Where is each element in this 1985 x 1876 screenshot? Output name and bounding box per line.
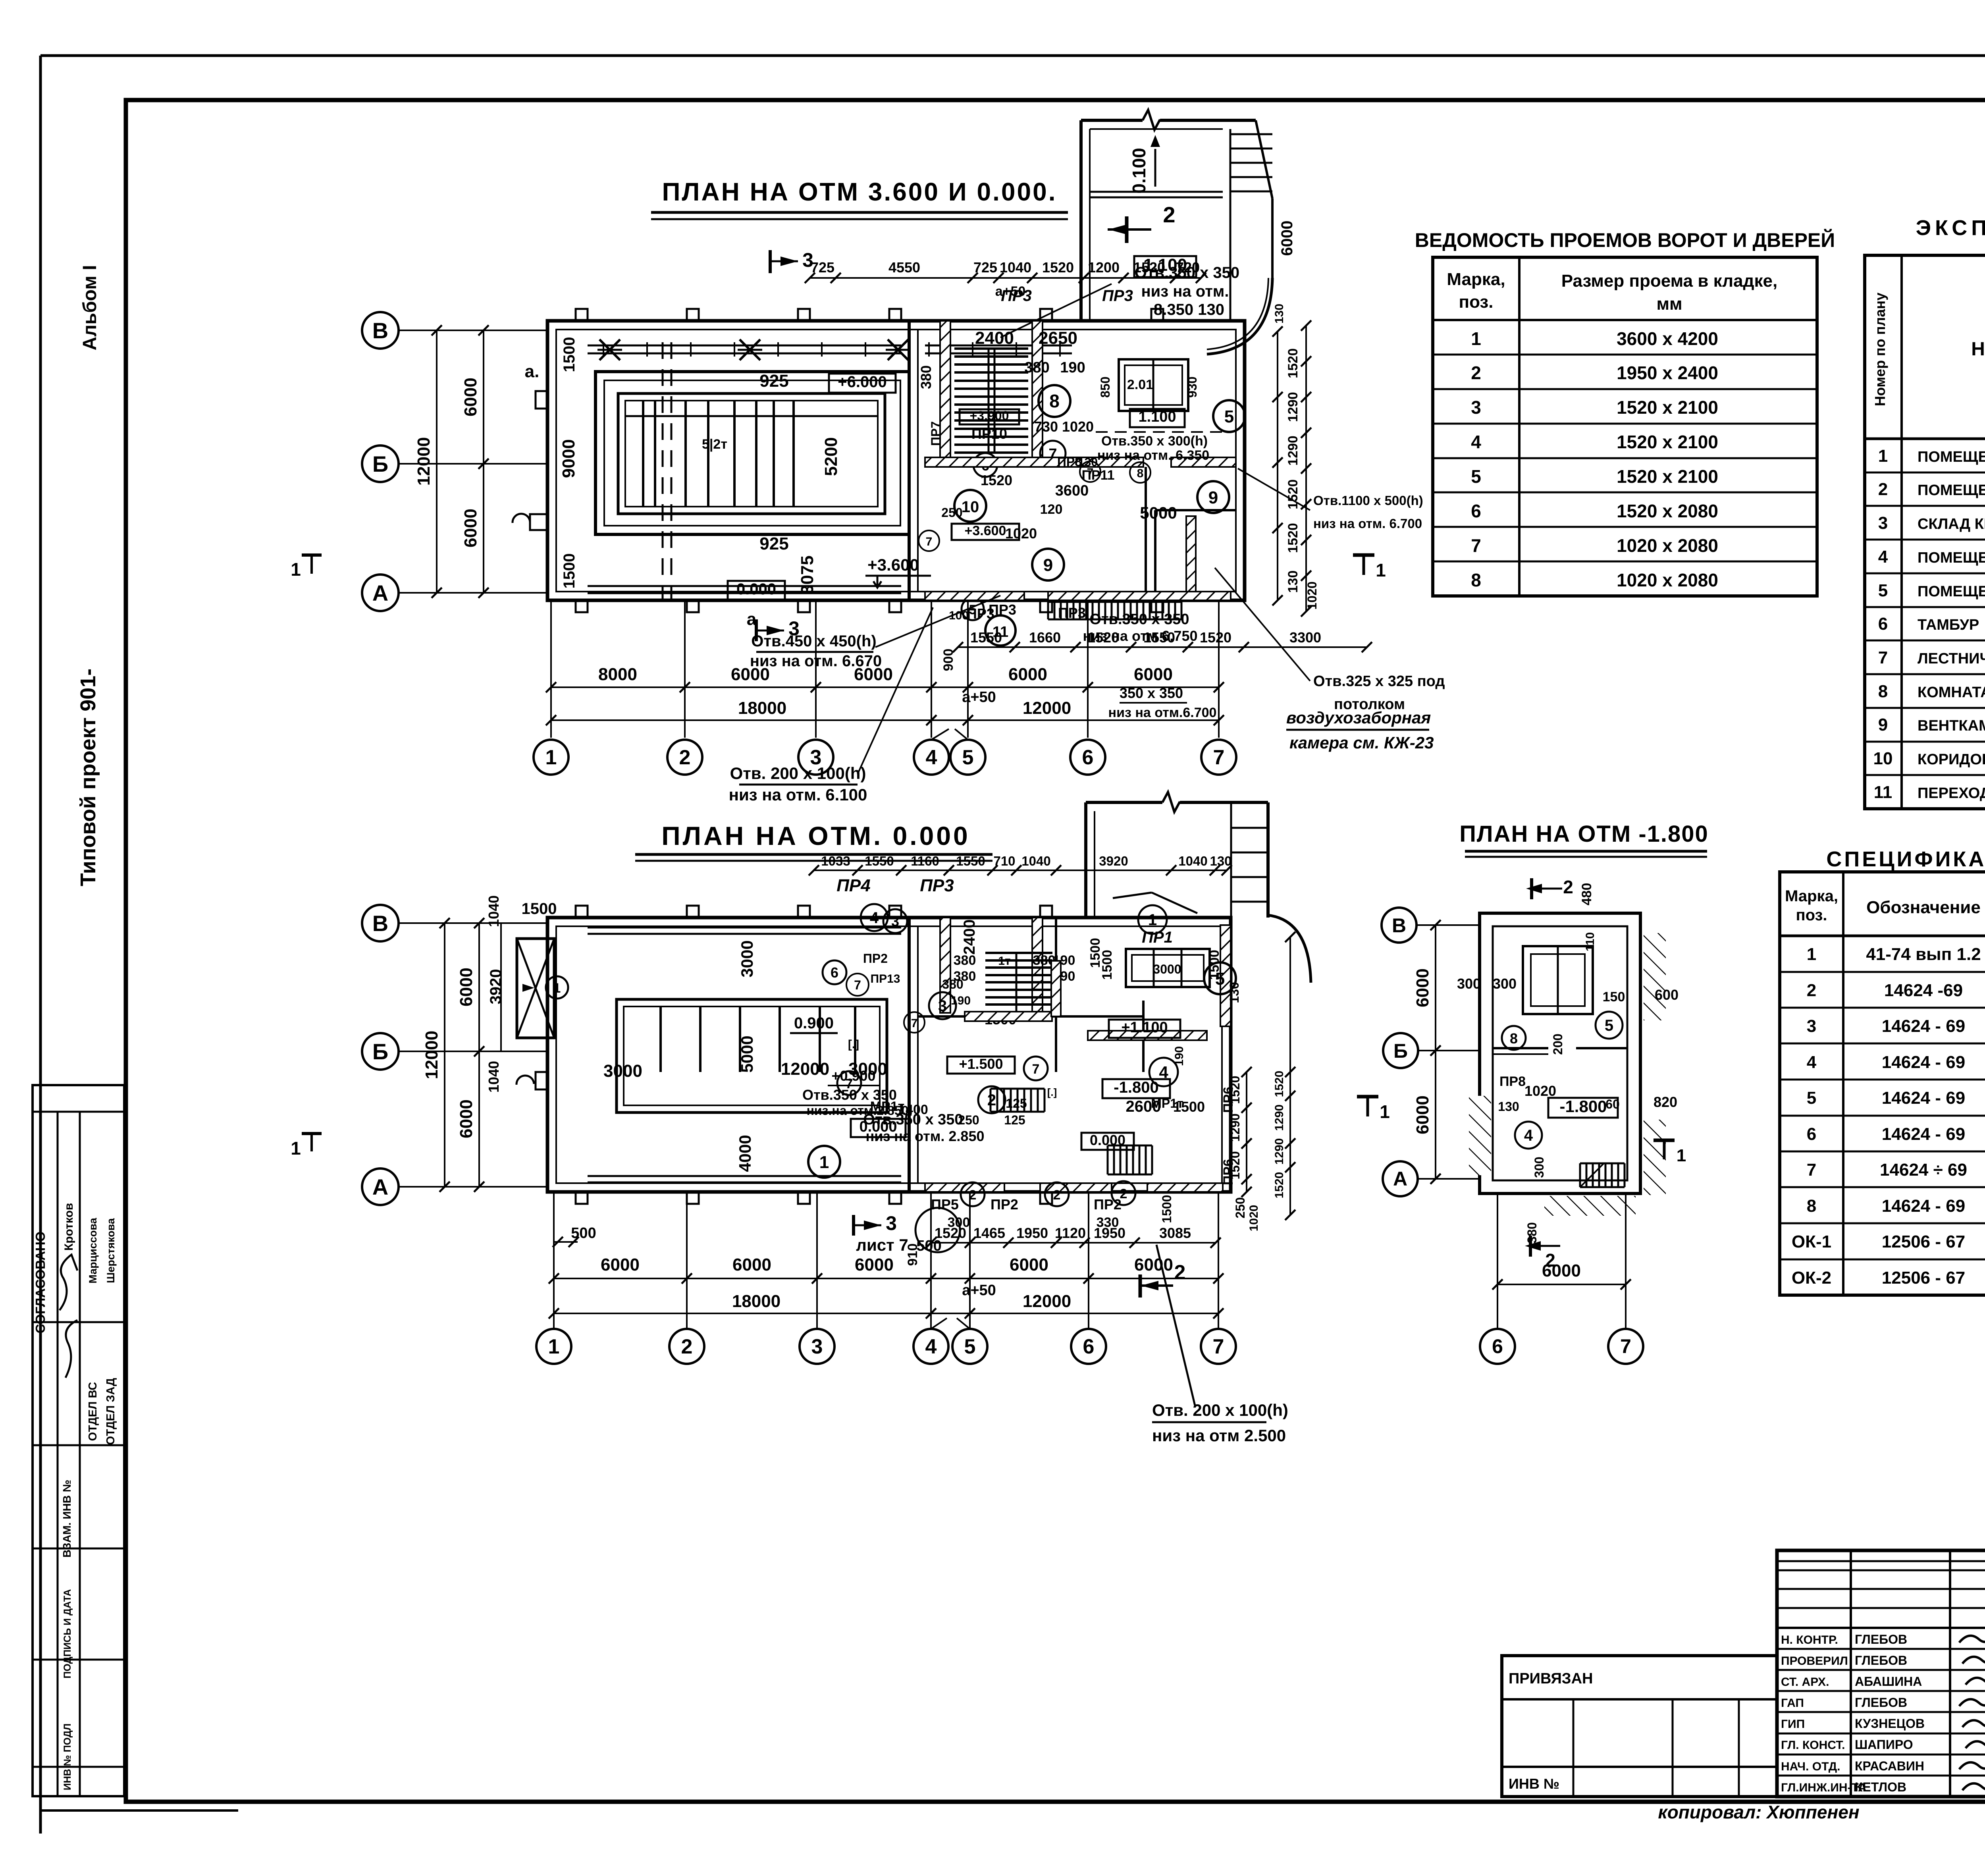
svg-text:60: 60 <box>1605 1097 1620 1111</box>
plan2 stair flight <box>985 952 1052 954</box>
svg-text:4: 4 <box>1471 432 1481 452</box>
plan1 middle hatched wall <box>925 457 1143 467</box>
svg-text:ПОМЕЩЕНИЕ ИЗВЕСТКОВОГО ТЕСТ: ПОМЕЩЕНИЕ ИЗВЕСТКОВОГО ТЕСТА <box>1918 583 1985 600</box>
plan2 gate <box>517 939 554 1038</box>
svg-text:6: 6 <box>1807 1124 1816 1144</box>
svg-text:1: 1 <box>291 559 301 580</box>
svg-text:ЛЕСТНИЧНАЯ КЛЕТКА: ЛЕСТНИЧНАЯ КЛЕТКА <box>1918 650 1985 667</box>
svg-text:1: 1 <box>1471 328 1481 349</box>
svg-text:190: 190 <box>1173 1046 1186 1066</box>
plan2 window bands <box>588 927 901 929</box>
svg-text:Н а и м е н о в а н и е: Н а и м е н о в а н и е <box>1971 339 1985 360</box>
svg-text:Шерстякова: Шерстякова <box>105 1218 117 1283</box>
svg-text:710: 710 <box>993 854 1015 868</box>
svg-text:7: 7 <box>1620 1335 1631 1357</box>
plan2 left vertical dims <box>478 923 480 1187</box>
svg-text:3075: 3075 <box>798 555 817 594</box>
plan1 section mark T1 <box>1353 553 1374 557</box>
plan1 axis circle B <box>362 445 399 482</box>
svg-text:1290: 1290 <box>1273 1105 1286 1131</box>
svg-text:ПР7: ПР7 <box>929 421 943 446</box>
svg-text:4: 4 <box>1878 547 1888 567</box>
plan1 interior wall axis4 <box>908 321 911 600</box>
svg-text:9: 9 <box>1878 715 1888 735</box>
plan2 tower exterior stair <box>1231 827 1268 829</box>
svg-text:8: 8 <box>1807 1196 1816 1216</box>
plan1 tower floor line <box>1090 191 1223 193</box>
title block <box>1777 1550 1985 1797</box>
svg-text:а+50: а+50 <box>962 1282 996 1299</box>
svg-text:6: 6 <box>1082 746 1094 769</box>
plan1 entrance grille <box>1047 602 1049 619</box>
svg-text:1660: 1660 <box>1029 629 1061 646</box>
svg-text:-1.800: -1.800 <box>1114 1079 1158 1096</box>
svg-text:3000: 3000 <box>1153 962 1181 976</box>
svg-text:1: 1 <box>548 1335 560 1358</box>
svg-text:1020: 1020 <box>1247 1205 1260 1232</box>
plan1 tower exterior stair <box>1230 133 1272 135</box>
svg-text:В: В <box>372 318 388 343</box>
svg-text:18000: 18000 <box>732 1292 781 1311</box>
plan1 right dim chain outer <box>1305 326 1307 611</box>
svg-text:8: 8 <box>1510 1030 1518 1047</box>
svg-text:8: 8 <box>1878 682 1888 701</box>
svg-text:ПР13: ПР13 <box>871 972 900 985</box>
svg-text:5200: 5200 <box>821 437 841 476</box>
plan2 hall tanks <box>617 999 887 1112</box>
svg-text:КРАСАВИН: КРАСАВИН <box>1855 1759 1924 1773</box>
svg-text:1020: 1020 <box>1005 525 1037 542</box>
svg-text:5: 5 <box>1215 969 1225 989</box>
svg-text:1: 1 <box>291 1138 301 1159</box>
plan2 middle walls <box>918 1015 1143 1018</box>
plan2 bottom extension lines <box>553 1192 555 1328</box>
svg-text:ПР6: ПР6 <box>1221 1087 1236 1113</box>
svg-text:а+50: а+50 <box>995 284 1026 299</box>
svg-text:1550: 1550 <box>970 629 1002 646</box>
privyazan block <box>1502 1656 1777 1797</box>
plan1 left vertical dims <box>483 330 484 593</box>
svg-text:14624 - 69: 14624 - 69 <box>1882 1053 1965 1072</box>
svg-text:Отв.1100 х 500(h): Отв.1100 х 500(h) <box>1313 493 1423 508</box>
plan1 vent chamber walls <box>1154 510 1156 592</box>
svg-text:Отв. 200 х 100(h): Отв. 200 х 100(h) <box>1152 1401 1288 1419</box>
plan3 axis circle B <box>1383 1033 1418 1068</box>
svg-text:110: 110 <box>1584 932 1597 951</box>
svg-text:ПОДПИСЬ И ДАТА: ПОДПИСЬ И ДАТА <box>62 1589 73 1678</box>
svg-text:5: 5 <box>1807 1088 1816 1108</box>
svg-text:ПР8: ПР8 <box>1499 1074 1526 1089</box>
svg-text:130: 130 <box>1210 854 1231 868</box>
svg-text:850: 850 <box>1098 376 1112 397</box>
svg-text:12000: 12000 <box>781 1059 829 1079</box>
svg-text:3000: 3000 <box>738 940 756 977</box>
svg-text:1520 x 2100: 1520 x 2100 <box>1617 397 1718 418</box>
svg-text:190: 190 <box>1060 359 1085 376</box>
svg-text:ПР2: ПР2 <box>1094 1196 1122 1213</box>
plan1 outer walls <box>547 321 1245 600</box>
plan2 bottom wall hatched <box>925 1183 1004 1192</box>
svg-text:14624 - 69: 14624 - 69 <box>1882 1196 1965 1216</box>
svg-text:4000: 4000 <box>736 1135 754 1172</box>
plan2 door circles top <box>861 904 888 931</box>
svg-text:8: 8 <box>1137 467 1144 480</box>
svg-text:725: 725 <box>811 259 834 276</box>
svg-text:3: 3 <box>891 913 899 929</box>
svg-text:1040: 1040 <box>1021 854 1050 868</box>
plan1 level box 1.100 upper <box>1134 256 1196 277</box>
table specification <box>1780 872 1985 1295</box>
svg-text:низ.на отм.2.850: низ.на отм.2.850 <box>807 1103 909 1118</box>
svg-text:ИНВ № ПОДЛ: ИНВ № ПОДЛ <box>62 1724 73 1790</box>
svg-text:1020 x 2080: 1020 x 2080 <box>1617 535 1718 556</box>
svg-text:1290: 1290 <box>1285 436 1301 466</box>
svg-text:14624 - 69: 14624 - 69 <box>1882 1016 1965 1036</box>
svg-text:+3.600: +3.600 <box>965 523 1006 538</box>
svg-text:2650: 2650 <box>1039 328 1077 348</box>
svg-text:1520: 1520 <box>981 472 1012 488</box>
plan2 sheet7 note <box>852 1215 855 1236</box>
svg-text:1550: 1550 <box>956 854 985 868</box>
plan2 right wall hatched below tower <box>1220 925 1231 1026</box>
svg-text:9: 9 <box>1208 488 1218 507</box>
svg-text:6000: 6000 <box>457 1099 476 1138</box>
svg-text:6000: 6000 <box>601 1255 640 1274</box>
svg-text:7: 7 <box>854 978 861 992</box>
svg-text:+0.900: +0.900 <box>831 1068 875 1084</box>
plan1 axis circle A <box>362 575 399 611</box>
svg-text:ГЛ.ИНЖ.ИН-ТА: ГЛ.ИНЖ.ИН-ТА <box>1781 1781 1867 1794</box>
svg-text:1520 x 2100: 1520 x 2100 <box>1617 466 1718 487</box>
svg-text:1520: 1520 <box>1042 259 1074 276</box>
svg-text:Типовой проект 901-: Типовой проект 901- <box>76 669 100 887</box>
svg-text:6000: 6000 <box>461 509 480 548</box>
svg-text:1160: 1160 <box>911 854 939 868</box>
svg-text:1040: 1040 <box>486 1061 502 1093</box>
svg-text:3: 3 <box>1471 397 1481 418</box>
plan1 bottom corridor labels <box>962 598 984 620</box>
svg-text:Отв.450 х 450(h): Отв.450 х 450(h) <box>751 632 876 650</box>
svg-text:1520 x 2100: 1520 x 2100 <box>1617 432 1718 452</box>
svg-text:ЭКСПЛИКАЦИЯ ПОМЕЩЕНИЙ: ЭКСПЛИКАЦИЯ ПОМЕЩЕНИЙ <box>1916 216 1985 240</box>
svg-text:СКЛАД КРЕМНЕФТОРИСТОГО НАТРИЯ: СКЛАД КРЕМНЕФТОРИСТОГО НАТРИЯ <box>1918 516 1985 532</box>
svg-text:300: 300 <box>1457 976 1481 992</box>
svg-text:А: А <box>1393 1168 1407 1190</box>
svg-text:150: 150 <box>1603 989 1625 1005</box>
svg-text:ОК-1: ОК-1 <box>1792 1232 1831 1251</box>
svg-text:лист 7: лист 7 <box>856 1236 908 1254</box>
svg-text:1: 1 <box>819 1153 829 1172</box>
svg-text:1500: 1500 <box>522 900 557 918</box>
svg-text:1т: 1т <box>998 954 1010 968</box>
plan1 room8 circle <box>1039 385 1070 417</box>
plan1 wall pilasters <box>576 309 588 321</box>
svg-text:1520: 1520 <box>1285 523 1301 553</box>
svg-text:2400: 2400 <box>961 920 978 955</box>
svg-text:6: 6 <box>1083 1335 1095 1358</box>
svg-text:камера см. КЖ-23: камера см. КЖ-23 <box>1289 733 1434 752</box>
svg-text:низ на отм. 6.100: низ на отм. 6.100 <box>729 785 867 804</box>
svg-text:А: А <box>372 1174 388 1199</box>
svg-text:ПР2: ПР2 <box>863 951 888 966</box>
svg-text:6000: 6000 <box>732 1255 771 1274</box>
plan3 section mark 2 bottom <box>1529 1236 1532 1257</box>
svg-text:1: 1 <box>1677 1146 1686 1165</box>
plan2 axis circles bottom <box>536 1329 571 1364</box>
plan3 inner wall <box>1493 1047 1548 1049</box>
svg-text:3300: 3300 <box>1289 629 1321 646</box>
svg-text:ПОМЕЩЕНИЕ ИЗВЕСТКОВАНИЯ: ПОМЕЩЕНИЕ ИЗВЕСТКОВАНИЯ <box>1918 549 1985 566</box>
svg-text:900: 900 <box>941 649 956 671</box>
svg-text:поз.: поз. <box>1459 292 1494 312</box>
svg-text:5: 5 <box>962 746 974 769</box>
svg-text:130: 130 <box>1273 304 1286 324</box>
svg-text:ПР3: ПР3 <box>920 876 954 895</box>
plan1 room9 circle right <box>1197 481 1229 513</box>
svg-text:7: 7 <box>1087 466 1094 479</box>
svg-text:4: 4 <box>926 746 937 769</box>
svg-text:ГАП: ГАП <box>1781 1697 1804 1710</box>
svg-text:2: 2 <box>1471 362 1481 383</box>
svg-text:480: 480 <box>1579 883 1594 906</box>
svg-text:8.350 130: 8.350 130 <box>1154 301 1224 318</box>
svg-text:1520: 1520 <box>1133 259 1165 276</box>
svg-text:2: 2 <box>679 746 691 769</box>
svg-text:6: 6 <box>831 964 838 981</box>
svg-text:СПЕЦИФИКАЦИЯ ЭЛЕМЕНТОВ ЗАПОЛ: СПЕЦИФИКАЦИЯ ЭЛЕМЕНТОВ ЗАПОЛНЕНИЯ ПРОЕМО… <box>1826 847 1985 871</box>
svg-text:14624 - 69: 14624 - 69 <box>1882 1124 1965 1144</box>
svg-text:ПЛАН НА ОТМ -1.800: ПЛАН НА ОТМ -1.800 <box>1459 821 1709 847</box>
svg-text:ГЛЕБОВ: ГЛЕБОВ <box>1855 1695 1907 1710</box>
svg-text:1500: 1500 <box>561 553 578 589</box>
svg-text:130: 130 <box>1285 571 1301 593</box>
svg-text:6000: 6000 <box>855 1255 894 1274</box>
svg-text:2: 2 <box>681 1335 693 1358</box>
svg-text:10: 10 <box>962 498 979 516</box>
plan1 stair walls hatched <box>940 321 950 461</box>
svg-text:5: 5 <box>1224 407 1234 426</box>
svg-text:380: 380 <box>918 365 934 389</box>
plan3 stairs <box>1579 1163 1581 1187</box>
svg-text:низ на отм.6.700: низ на отм.6.700 <box>1108 705 1217 720</box>
svg-text:1020: 1020 <box>1524 1083 1556 1099</box>
svg-text:0.900: 0.900 <box>794 1014 834 1032</box>
svg-text:6: 6 <box>1492 1335 1503 1357</box>
svg-text:Размер проема в кладке,: Размер проема в кладке, <box>1561 271 1777 291</box>
svg-text:1520: 1520 <box>1273 1071 1286 1097</box>
svg-text:ПРОВЕРИЛ: ПРОВЕРИЛ <box>1781 1654 1848 1668</box>
svg-text:В: В <box>1392 914 1406 937</box>
svg-text:1: 1 <box>1878 446 1888 466</box>
plan1 section mark 3 bottom <box>755 619 758 641</box>
svg-text:5|2т: 5|2т <box>702 437 727 452</box>
plan1 axis circle V <box>362 312 399 349</box>
plan1 top dimension chain <box>810 277 1201 279</box>
svg-text:ВЕДОМОСТЬ ПРОЕМОВ ВОРОТ И ДВЕР: ВЕДОМОСТЬ ПРОЕМОВ ВОРОТ И ДВЕРЕЙ <box>1415 229 1835 251</box>
svg-text:4: 4 <box>870 909 879 927</box>
plan1 small chain right <box>958 646 1367 648</box>
svg-text:1040: 1040 <box>1178 854 1207 868</box>
svg-text:2: 2 <box>1807 981 1816 1000</box>
svg-text:Марка,: Марка, <box>1785 887 1838 905</box>
svg-text:7: 7 <box>1032 1062 1040 1077</box>
svg-text:14624 ÷ 69: 14624 ÷ 69 <box>1880 1160 1967 1180</box>
svg-text:1033: 1033 <box>821 854 850 868</box>
svg-text:4: 4 <box>1807 1053 1817 1072</box>
plan1 tower quarter-round wall <box>1207 278 1272 354</box>
svg-text:Марка,: Марка, <box>1447 270 1505 289</box>
plan2 tower quarter-round wall <box>1268 915 1311 983</box>
plan1 bottom dim chain 1 <box>551 686 1219 688</box>
svg-text:КОРИДОР: КОРИДОР <box>1918 751 1985 768</box>
svg-text:1950: 1950 <box>1094 1225 1125 1241</box>
svg-text:2: 2 <box>1174 1261 1186 1284</box>
svg-text:а+50: а+50 <box>962 689 996 706</box>
svg-text:МР1т: МР1т <box>1151 1096 1183 1111</box>
svg-text:Кротков: Кротков <box>62 1203 75 1251</box>
plan2 section mark 1T left <box>302 1132 322 1135</box>
svg-text:ГИП: ГИП <box>1781 1718 1805 1731</box>
svg-text:300: 300 <box>1493 976 1517 992</box>
plan3 axis circle V <box>1382 908 1416 943</box>
svg-text:ОТДЕЛ ВС: ОТДЕЛ ВС <box>87 1382 99 1441</box>
svg-text:500: 500 <box>571 1225 596 1242</box>
plan2 bottom dim chain 1 <box>554 1241 578 1243</box>
svg-text:ИНВ №: ИНВ № <box>1509 1776 1559 1792</box>
svg-text:Б: Б <box>1393 1040 1408 1062</box>
svg-text:Номер по плану: Номер по плану <box>1872 293 1888 406</box>
plan2 ladder combs <box>990 1089 992 1112</box>
svg-text:ПР6: ПР6 <box>1221 1159 1236 1185</box>
plan2 door PR1 pediment <box>1113 893 1152 898</box>
svg-text:3600: 3600 <box>1055 482 1089 499</box>
svg-text:380: 380 <box>942 977 963 991</box>
svg-text:12506 - 67: 12506 - 67 <box>1882 1268 1965 1288</box>
svg-text:1500: 1500 <box>1160 1195 1174 1223</box>
svg-text:0.000: 0.000 <box>736 580 776 598</box>
svg-text:5000: 5000 <box>738 1035 756 1072</box>
plan2 wall pilasters <box>576 906 588 918</box>
svg-text:7: 7 <box>1878 648 1888 667</box>
table openings list <box>1433 257 1817 596</box>
svg-text:5000: 5000 <box>1140 503 1177 522</box>
svg-text:125: 125 <box>1004 1113 1025 1127</box>
svg-text:6000: 6000 <box>1008 665 1047 684</box>
plan3 earth hatch <box>1644 933 1666 1020</box>
plan2 bottom dim chain 2 <box>554 1313 1218 1314</box>
svg-text:Н. КОНТР.: Н. КОНТР. <box>1781 1633 1838 1647</box>
svg-text:Марциссова: Марциссова <box>87 1217 99 1283</box>
svg-text:820: 820 <box>1654 1094 1677 1110</box>
svg-text:[.]: [.] <box>848 1038 859 1051</box>
svg-text:1: 1 <box>553 981 561 996</box>
svg-text:930: 930 <box>1185 376 1199 397</box>
svg-text:7: 7 <box>911 1017 918 1030</box>
svg-text:725: 725 <box>973 259 997 276</box>
svg-text:1.100: 1.100 <box>1138 409 1176 425</box>
svg-text:1290: 1290 <box>1228 1113 1242 1141</box>
plan1 expansion joint <box>662 342 664 599</box>
svg-text:41-74 вып 1.2: 41-74 вып 1.2 <box>1866 945 1981 964</box>
svg-text:3085: 3085 <box>1159 1225 1191 1241</box>
svg-text:7: 7 <box>1807 1160 1816 1180</box>
svg-text:12000: 12000 <box>1023 1292 1071 1311</box>
svg-text:ПР2: ПР2 <box>991 1196 1018 1213</box>
plan1 bottom extension lines <box>550 600 552 738</box>
plan1 corridor circle 10 <box>954 490 986 522</box>
svg-text:3: 3 <box>802 249 813 271</box>
svg-text:7: 7 <box>926 535 933 548</box>
outer sheet border <box>40 54 1985 57</box>
plan1 bottom dim chain 2 <box>551 719 1219 721</box>
svg-text:12000: 12000 <box>414 437 434 486</box>
svg-text:низ на отм 2.500: низ на отм 2.500 <box>1152 1426 1286 1445</box>
svg-text:ПОМЕЩЕНИЕ ФТОРИРОВАНИЯ: ПОМЕЩЕНИЕ ФТОРИРОВАНИЯ <box>1918 482 1985 499</box>
svg-text:4: 4 <box>1524 1127 1533 1144</box>
svg-text:ШАПИРО: ШАПИРО <box>1855 1737 1913 1752</box>
svg-text:5: 5 <box>964 1335 976 1358</box>
plan2 right dim chains <box>1246 1072 1247 1192</box>
svg-text:ПР4: ПР4 <box>836 876 870 895</box>
plan2 stair walls <box>940 918 950 1013</box>
svg-text:250: 250 <box>1233 1197 1247 1218</box>
svg-text:2: 2 <box>1163 202 1175 227</box>
svg-text:3920: 3920 <box>487 969 505 1005</box>
plan3 walls <box>1480 913 1640 1193</box>
svg-text:ПОМЕЩЕНИЕ МИКРОФИЛЬТРОВ: ПОМЕЩЕНИЕ МИКРОФИЛЬТРОВ <box>1918 449 1985 465</box>
plan2 middle circles <box>929 992 956 1019</box>
plan1 bottom wall hatched <box>925 592 1024 600</box>
plan3 section mark T1 right <box>1654 1139 1675 1142</box>
svg-text:1040: 1040 <box>1000 259 1031 276</box>
svg-text:130: 130 <box>1227 982 1241 1003</box>
svg-text:ВЗАМ. ИНВ №: ВЗАМ. ИНВ № <box>61 1480 73 1558</box>
svg-text:130: 130 <box>1498 1099 1519 1114</box>
svg-text:низ на отм.: низ на отм. <box>1141 283 1229 300</box>
svg-text:ОК-2: ОК-2 <box>1792 1268 1831 1288</box>
plan2 section mark 2 right <box>1139 1274 1142 1298</box>
svg-text:14624 - 69: 14624 - 69 <box>1882 1088 1965 1108</box>
svg-text:380: 380 <box>1024 359 1049 376</box>
svg-text:12000: 12000 <box>1023 698 1071 718</box>
svg-text:1200: 1200 <box>1088 259 1120 276</box>
svg-text:1120: 1120 <box>1055 1225 1086 1241</box>
svg-text:7: 7 <box>1213 746 1225 769</box>
svg-text:ПЛАН НА ОТМ 3.600 И 0.: ПЛАН НА ОТМ 3.600 И 0.000. <box>662 177 1057 206</box>
svg-text:2.01: 2.01 <box>1127 377 1153 392</box>
svg-text:1290: 1290 <box>1285 392 1301 422</box>
svg-text:Отв.325 х 325 под: Отв.325 х 325 под <box>1313 673 1445 690</box>
svg-text:ГЛЕБОВ: ГЛЕБОВ <box>1855 1653 1907 1668</box>
svg-text:5: 5 <box>1605 1017 1613 1034</box>
plan3 axis circle A <box>1383 1161 1418 1196</box>
svg-text:2400: 2400 <box>975 328 1014 348</box>
svg-text:КУЗНЕЦОВ: КУЗНЕЦОВ <box>1855 1716 1925 1731</box>
plan1 section mark 2 top <box>1125 216 1129 243</box>
svg-text:1950: 1950 <box>1016 1225 1048 1241</box>
svg-text:6000: 6000 <box>1134 1255 1173 1274</box>
svg-text:Б: Б <box>372 1039 388 1064</box>
svg-text:5: 5 <box>1878 581 1888 600</box>
plan2 window top right <box>1126 949 1210 987</box>
svg-text:1500: 1500 <box>561 337 578 372</box>
plan3 axis circles bottom <box>1480 1329 1515 1364</box>
svg-text:9000: 9000 <box>559 439 578 478</box>
svg-text:18000: 18000 <box>738 698 786 718</box>
svg-text:А: А <box>372 580 388 605</box>
svg-text:1: 1 <box>1148 911 1157 929</box>
svg-text:воздухозаборная: воздухозаборная <box>1286 708 1431 727</box>
